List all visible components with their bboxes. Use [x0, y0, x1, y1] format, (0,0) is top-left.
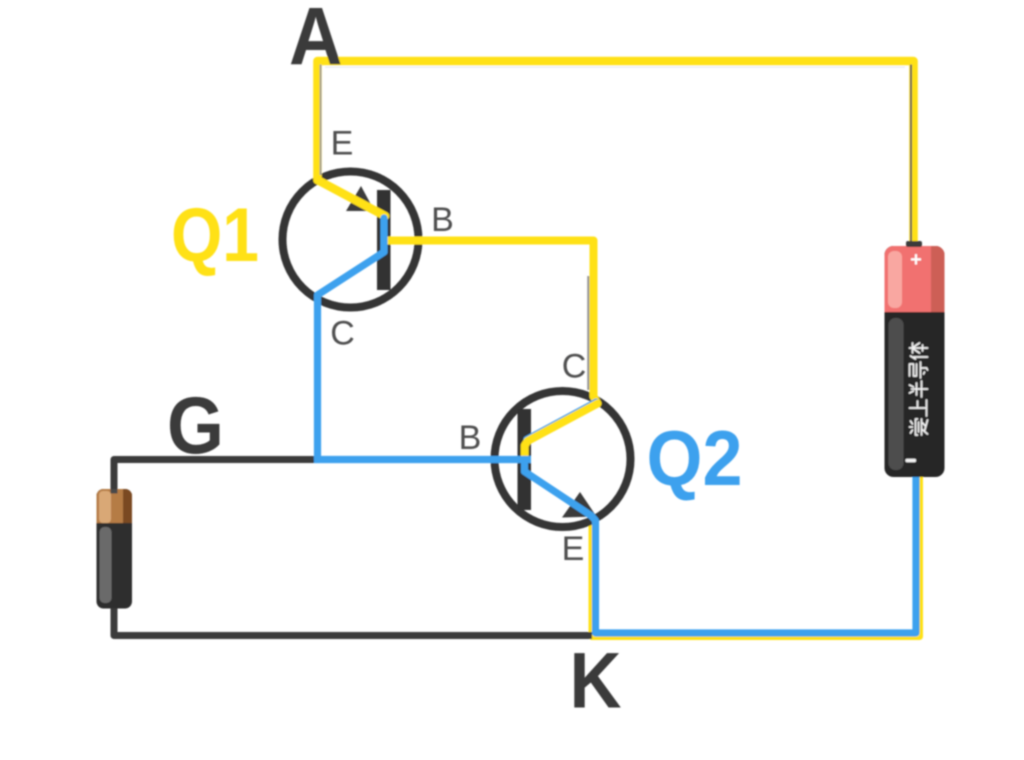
battery BT1 label text (Chinese, rotated) [910, 343, 928, 435]
battery BT1 black body [885, 246, 945, 477]
battery BT1 pink cap highlight [888, 251, 902, 308]
battery BT1 minus sign [906, 459, 917, 462]
battery BT2 brown top highlight [99, 491, 111, 523]
battery BT1 body highlight stripe [889, 318, 904, 470]
transistor Q2 emitter arrow [562, 492, 597, 518]
battery BT1 positive terminal nub [906, 241, 922, 247]
glyph ban [910, 381, 928, 397]
svg-text:A: A [289, 0, 343, 83]
svg-text:C: C [562, 348, 587, 386]
battery BT2 body highlight stripe [100, 527, 112, 603]
wire: yellow anode net A - top rail, battery plus lead and Q1 emitter lead [318, 61, 914, 248]
transistor Q2 base bar [518, 409, 532, 510]
wire: blue underlay sliver along Q2 collector diagonal [527, 402, 597, 440]
wire: yellow over blue on Q2 collector diagonal [528, 404, 598, 442]
transistor Q1 body circle [283, 172, 419, 308]
battery BT1 pink cap dark edge [931, 246, 945, 312]
svg-text:C: C [330, 315, 355, 353]
svg-text:B: B [459, 419, 482, 457]
battery BT1 pink positive cap [885, 246, 945, 312]
transistor Q1 emitter arrow [346, 186, 375, 211]
svg-text:E: E [562, 530, 585, 568]
wire: blue Q1 collector lead down to node G junction [318, 218, 385, 460]
wire: black gate G wire from battery BT2 plus to node G junction [114, 460, 321, 493]
wire: thin schematic line under node A vertical [320, 65, 322, 176]
svg-text:E: E [331, 125, 354, 163]
glyph ai [910, 419, 928, 435]
svg-text:Q2: Q2 [647, 414, 743, 502]
battery BT2 (left, gate cell) [97, 489, 133, 609]
glyph dao [910, 362, 928, 378]
battery BT2 dark body [97, 489, 133, 609]
transistor Q2 body circle [495, 391, 631, 527]
battery BT2 brown top [97, 489, 133, 523]
glyph ti [910, 343, 928, 359]
battery BT2 brown top dark edge [123, 489, 132, 523]
wire: black wire from battery BT2 minus to cathode node K [114, 604, 592, 636]
glyph shang [910, 400, 927, 416]
wire: yellow net Q1 base to Q2 collector [385, 241, 598, 460]
svg-text:K: K [570, 636, 622, 725]
svg-text:+: + [910, 249, 922, 271]
svg-text:G: G [167, 381, 224, 471]
wire: faint schematic line under top anode rail [325, 66, 905, 68]
wire: thin schematic line battery BT1 positive lead [910, 65, 912, 244]
battery BT1 (right, main cell) [885, 246, 946, 477]
svg-text:B: B [431, 201, 454, 239]
battery BT2 terminal notch [111, 489, 118, 494]
wire: blue cathode net from Q2 emitter to battery BT1 minus [525, 460, 917, 634]
wire: yellow underlay along cathode K path (Q2 emitter to battery minus) [592, 474, 920, 637]
wire: blue gate net horizontal into Q2 base [314, 456, 531, 463]
wire: thin schematic line on Q1 base to Q2 collector vertical [587, 276, 589, 390]
svg-text:Q1: Q1 [171, 193, 259, 278]
transistor Q1 base bar [377, 190, 391, 290]
